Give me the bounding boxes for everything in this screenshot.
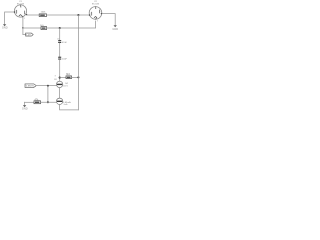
svg-text:ECC83: ECC83 — [92, 4, 100, 6]
wire V2 anode to ground — [102, 14, 115, 26]
svg-text:6: 6 — [100, 11, 101, 13]
svg-text:1: 1 — [26, 12, 27, 14]
meter M2 — [56, 98, 62, 104]
tube V2 anode bar — [99, 10, 101, 13]
tube V2 pin 7 (grid, left) — [89, 14, 90, 15]
svg-text:100k: 100k — [41, 12, 47, 14]
junction node right rail tap — [77, 76, 79, 78]
tube V2 grid bar — [91, 12, 93, 15]
wire cathode to R2 — [23, 27, 41, 29]
wire junction to C1 — [59, 28, 61, 40]
wire M2 bottom to right rail — [60, 105, 79, 110]
wire R2 to V2 cathode — [47, 21, 96, 28]
tube V2 pin 6 (anode, right) — [101, 13, 102, 14]
ground GND2 — [114, 25, 117, 27]
tube V1 top pin stub — [20, 5, 22, 7]
resistor R4 — [34, 101, 41, 104]
tube V1 pin 1 (anode, right) — [26, 14, 27, 15]
svg-text:GND: GND — [2, 26, 8, 30]
junction node divider bottom — [47, 101, 49, 103]
right rail wire — [77, 15, 79, 110]
tube V1 envelope — [14, 5, 26, 17]
svg-text:12mV: 12mV — [63, 85, 69, 87]
wire grid of V1 to ground — [5, 12, 15, 24]
tube V1 pin 2 (grid, left) — [14, 11, 15, 12]
net flag input — [25, 84, 36, 88]
svg-text:10uF: 10uF — [62, 59, 68, 61]
tube V1 cathode — [19, 15, 23, 18]
svg-text:0.35mV: 0.35mV — [26, 86, 35, 88]
capacitor C2 — [58, 57, 61, 58]
svg-text:47uF: 47uF — [62, 42, 68, 44]
svg-text:ECC83: ECC83 — [17, 4, 25, 6]
tube V2 envelope — [89, 7, 102, 20]
wire R3 to right rail — [72, 76, 79, 78]
wire M1 to M2 — [59, 88, 61, 99]
tube V2 cathode — [94, 17, 97, 20]
svg-text:R: R — [55, 75, 57, 77]
svg-text:2: 2 — [15, 10, 16, 12]
svg-text:3: 3 — [24, 18, 25, 20]
svg-text:1: 1 — [96, 8, 97, 10]
svg-text:7: 7 — [90, 13, 91, 15]
svg-text:6: 6 — [21, 6, 22, 8]
resistor R2 — [41, 27, 47, 30]
wire junction to R3 — [60, 76, 66, 78]
net flag cathode voltage — [26, 33, 34, 36]
svg-text:1.2V: 1.2V — [26, 35, 31, 37]
wire divider vertical — [47, 86, 49, 103]
svg-text:8k2: 8k2 — [66, 73, 71, 76]
meter M1 — [56, 81, 62, 87]
junction node R3 tap — [59, 77, 61, 79]
svg-text:GND: GND — [112, 27, 118, 31]
wire flag to M1 — [36, 85, 56, 87]
svg-text:8: 8 — [97, 20, 98, 22]
wire V1 cathode down — [22, 18, 24, 28]
junction node cap chain — [59, 27, 61, 29]
wire R4 to M2 — [41, 101, 57, 103]
tube V2 top pin stub — [95, 7, 97, 9]
ground GND1 — [3, 24, 6, 26]
svg-text:GND: GND — [22, 106, 28, 110]
ground GND3 — [24, 102, 26, 105]
wire ground to R4 — [25, 101, 34, 103]
resistor R3 — [66, 76, 72, 79]
capacitor C1 — [58, 40, 61, 41]
wire R1 to V2 grid — [47, 14, 90, 16]
junction node plate rail — [77, 14, 79, 16]
wire V1 anode to R1 — [27, 14, 39, 16]
junction node input divider top — [47, 85, 49, 87]
wire to net flag — [23, 28, 26, 35]
junction node cathode — [22, 27, 24, 29]
wire C1 to C2 — [59, 43, 61, 57]
tube V1 anode bar — [24, 11, 26, 14]
svg-text:C1: C1 — [57, 39, 59, 41]
svg-text:M1: M1 — [54, 79, 57, 81]
resistor R1 — [39, 14, 46, 17]
wire C2 down to meter M1 — [59, 60, 61, 82]
tube V1 grid bar — [16, 10, 18, 13]
